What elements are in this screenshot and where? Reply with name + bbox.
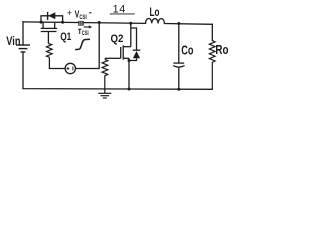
- svg-text:Lo: Lo: [150, 5, 160, 19]
- wire Co branch vertical: [178, 23, 180, 63]
- diode D1 triangle: [48, 12, 55, 19]
- capacitor Co: [173, 63, 184, 89]
- svg-text:Co: Co: [181, 43, 193, 58]
- battery Vin source: [16, 45, 30, 52]
- node dot C (riser joins top rail): [98, 21, 101, 24]
- node dot B (Q1 source): [61, 21, 64, 24]
- diode D2 (Q2 body diode): [129, 28, 140, 61]
- svg-text:CSI: CSI: [82, 31, 89, 37]
- svg-text:Q1: Q1: [60, 31, 71, 43]
- source V1 (gate drive, circle with + -): [65, 63, 75, 73]
- svg-text:Q2: Q2: [111, 33, 124, 45]
- ground symbol (below rail): [98, 89, 111, 98]
- resistor Rg2 (Q2 gate to ground): [102, 58, 108, 89]
- wire right vertical top corner into Ro: [211, 24, 213, 40]
- node dot F (Q2 source on ground rail): [128, 88, 131, 91]
- node dot D (Q2 drain on top rail): [129, 22, 132, 25]
- arrow iCSI (current direction): [84, 26, 90, 28]
- svg-text:+: +: [67, 8, 72, 18]
- underline of 14: [110, 13, 135, 15]
- resistor Rg1 (Q1 gate): [47, 44, 53, 58]
- diode D1 loop (antiparallel over Q1): [41, 16, 63, 22]
- resistor Ro: [209, 41, 215, 90]
- node dot H (Co bottom on rail): [177, 88, 180, 91]
- wire left vertical from top rail to battery: [22, 22, 24, 45]
- diode D2 triangle: [133, 51, 140, 58]
- capacitor / sensor CSI block on top rail: [78, 21, 83, 26]
- svg-text:Ro: Ro: [215, 42, 228, 57]
- svg-text:I: I: [79, 29, 81, 36]
- node dot A (Q1 drain): [40, 21, 43, 24]
- diode D1 cathode bar: [47, 12, 49, 20]
- label iCSI with overbar: [78, 28, 81, 30]
- wire battery bottom to ground rail: [23, 52, 212, 89]
- transistor Q1 (horizontal MOSFET): [41, 22, 57, 43]
- inductor Lo: [146, 19, 165, 24]
- waveform step glyph: [75, 39, 90, 49]
- wire Rg1 to source circle: [49, 57, 65, 68]
- transistor Q2 (vertical MOSFET): [105, 23, 131, 89]
- svg-text:Vin: Vin: [6, 34, 20, 48]
- svg-text:CSI: CSI: [79, 14, 86, 21]
- wire top rail from Vin corner to top-right corner: [23, 22, 146, 23]
- wire circle to top rail riser: [76, 23, 100, 69]
- node dot G (Co branch, top): [177, 22, 180, 25]
- node dot E (diode joins Q2 source): [128, 59, 131, 62]
